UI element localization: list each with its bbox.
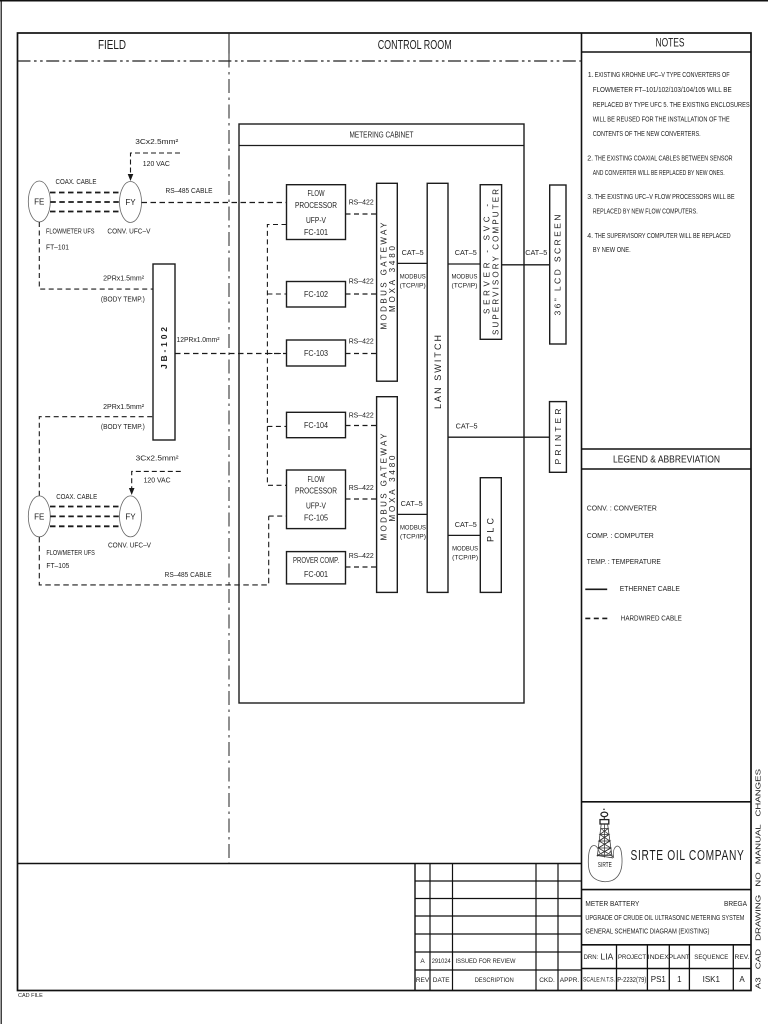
svg-text:BY NEW ONE.: BY NEW ONE. — [593, 247, 631, 254]
svg-text:291024: 291024 — [432, 958, 452, 965]
svg-text:METER BATTERY: METER BATTERY — [585, 899, 639, 908]
svg-text:FIELD: FIELD — [98, 38, 126, 52]
svg-text:2PRx1.5mm²: 2PRx1.5mm² — [103, 404, 145, 411]
svg-text:SEQUENCE: SEQUENCE — [694, 954, 728, 961]
svg-text:MOXA 3480: MOXA 3480 — [388, 245, 397, 312]
svg-text:(BODY TEMP.): (BODY TEMP.) — [101, 424, 145, 431]
wire FC-103 to modbus gateway 1 — [346, 353, 377, 355]
svg-text:4.: 4. — [587, 233, 593, 240]
svg-text:(TCP/IP): (TCP/IP) — [452, 282, 478, 289]
svg-text:SERVER - SVC -: SERVER - SVC - — [482, 204, 491, 314]
svg-text:3Cx2.5mm²: 3Cx2.5mm² — [136, 456, 180, 463]
svg-text:ETHERNET CABLE: ETHERNET CABLE — [620, 584, 680, 593]
zone divider FIELD/CONTROL ROOM (dashed) — [228, 54, 230, 864]
svg-text:INDEX: INDEX — [648, 954, 669, 961]
svg-text:1.: 1. — [588, 72, 594, 79]
svg-text:EXISTING KROHNE UFC–V TYPE CON: EXISTING KROHNE UFC–V TYPE CONVERTERS OF — [595, 72, 730, 79]
bus stub to FC-102 — [267, 293, 286, 295]
svg-text:BREGA: BREGA — [724, 899, 748, 908]
svg-text:FY: FY — [125, 513, 136, 522]
svg-text:RS–422: RS–422 — [349, 279, 374, 286]
svg-text:DRN:: DRN: — [584, 955, 599, 961]
boundary centerline below headers — [18, 60, 582, 62]
svg-text:MODBUS: MODBUS — [400, 273, 427, 280]
zone divider FIELD/CONTROL ROOM (solid top part) — [228, 33, 230, 54]
svg-text:MOXA 3480: MOXA 3480 — [388, 455, 397, 522]
svg-text:RS–422: RS–422 — [349, 553, 374, 560]
svg-text:PROJECT: PROJECT — [618, 954, 646, 961]
modbus gateway U2 MOXA 3480 — [377, 397, 398, 593]
svg-text:WILL BE REUSED FOR THE INSTALL: WILL BE REUSED FOR THE INSTALLATION OF T… — [593, 117, 730, 124]
junction box JB-102 — [153, 264, 175, 440]
ethernet wire LAN switch to PLC — [448, 534, 480, 536]
svg-text:FLOWMETER UFS: FLOWMETER UFS — [46, 550, 95, 557]
RS-485 stub into FC-105 — [269, 515, 287, 517]
svg-text:ISK1: ISK1 — [703, 975, 721, 984]
bus stub crossing into FC-103 — [267, 353, 286, 355]
svg-text:LEGEND & ABBREVIATION: LEGEND & ABBREVIATION — [613, 453, 720, 465]
svg-text:2.: 2. — [587, 155, 593, 162]
page edge top — [0, 0, 768, 2]
svg-text:CAT–5: CAT–5 — [456, 423, 478, 430]
svg-text:CONTENTS OF THE NEW CONVERTERS: CONTENTS OF THE NEW CONVERTERS. — [593, 131, 701, 138]
notes text block — [587, 72, 750, 254]
svg-text:CONV. : CONVERTER: CONV. : CONVERTER — [587, 503, 657, 512]
svg-text:COAX. CABLE: COAX. CABLE — [56, 494, 97, 501]
svg-text:FE: FE — [34, 198, 44, 207]
svg-text:FLOWMETER FT–101/102/103/104/1: FLOWMETER FT–101/102/103/104/105 WILL BE — [593, 87, 732, 94]
120 VAC feed wire to FY-101 — [131, 153, 181, 174]
svg-text:RS–422: RS–422 — [349, 200, 374, 207]
svg-text:PLANT: PLANT — [669, 954, 690, 961]
svg-text:CONV. UFC–V: CONV. UFC–V — [108, 542, 151, 549]
notes header underline — [582, 51, 752, 53]
svg-text:JB-102: JB-102 — [159, 327, 169, 369]
svg-text:THE SUPERVISORY COMPUTER WILL: THE SUPERVISORY COMPUTER WILL BE REPLACE… — [595, 233, 731, 240]
title field column dividers — [617, 945, 734, 991]
sirte logo derrick crown — [603, 809, 605, 811]
LAN switch — [427, 183, 448, 592]
svg-text:THE EXISTING UFC–V FLOW PROCES: THE EXISTING UFC–V FLOW PROCESSORS WILL … — [595, 194, 735, 201]
page edge left — [0, 0, 2, 1024]
svg-text:HARDWIRED CABLE: HARDWIRED CABLE — [621, 613, 682, 622]
svg-text:CKD.: CKD. — [539, 977, 555, 984]
arrowhead into FY-105 — [129, 488, 135, 495]
ethernet wire gateway2 to LAN switch — [397, 513, 427, 515]
sirte logo derrick tower lattice — [597, 824, 612, 859]
svg-text:CONTROL ROOM: CONTROL ROOM — [378, 38, 452, 52]
legend ethernet cable sample line — [585, 588, 607, 590]
flow processor FC-105 — [287, 470, 346, 529]
svg-text:RS–422: RS–422 — [349, 412, 374, 419]
svg-text:FT–105: FT–105 — [46, 563, 69, 570]
converter FY (FT-101) bubble — [120, 182, 142, 223]
svg-text:CONV. UFC–V: CONV. UFC–V — [107, 229, 150, 236]
svg-text:REV.: REV. — [735, 954, 750, 961]
svg-text:PRINTER: PRINTER — [553, 409, 563, 465]
svg-text:PS1: PS1 — [651, 975, 667, 984]
svg-text:1: 1 — [677, 975, 682, 984]
ethernet wire server to LCD screen — [502, 264, 550, 266]
svg-text:P-2232(79): P-2232(79) — [617, 975, 646, 984]
svg-text:3.: 3. — [587, 194, 593, 201]
legend header band bottom line — [582, 468, 752, 470]
svg-text:SCALE:N.T.S.: SCALE:N.T.S. — [583, 976, 615, 983]
body temp wire FE-101 down to JB-102 — [39, 222, 153, 289]
legend hardwired cable sample line — [585, 617, 608, 619]
RS-485 cable wire FE-105 bottom run — [39, 516, 268, 585]
svg-text:(TCP/IP): (TCP/IP) — [452, 554, 478, 561]
svg-text:FE: FE — [34, 513, 44, 522]
svg-text:REPLACED BY TYPE UFC 5. THE EX: REPLACED BY TYPE UFC 5. THE EXISTING ENC… — [593, 102, 750, 109]
svg-text:DATE: DATE — [433, 977, 451, 984]
svg-text:THE EXISTING COAXIAL CABLES BE: THE EXISTING COAXIAL CABLES BETWEEN SENS… — [595, 155, 733, 162]
flow computer FC-104 — [287, 412, 346, 437]
svg-text:PROCESSOR: PROCESSOR — [295, 487, 337, 496]
svg-text:CAT–5: CAT–5 — [525, 250, 547, 257]
svg-text:FLOWMETER UFS: FLOWMETER UFS — [46, 229, 95, 236]
svg-text:FC-102: FC-102 — [304, 290, 328, 299]
svg-text:MODBUS: MODBUS — [452, 273, 479, 280]
svg-text:120 VAC: 120 VAC — [143, 161, 170, 168]
wire FC-001 to modbus gateway 2 — [346, 566, 377, 568]
svg-text:ISSUED FOR REVIEW: ISSUED FOR REVIEW — [456, 958, 517, 965]
LCD screen 36in — [550, 185, 566, 344]
sirte logo blob — [588, 846, 622, 882]
svg-text:CAT–5: CAT–5 — [455, 250, 477, 257]
svg-text:RS–485 CABLE: RS–485 CABLE — [166, 188, 213, 195]
svg-text:CAT–5: CAT–5 — [455, 522, 477, 529]
wire FC-101 to modbus gateway 1 — [346, 213, 377, 215]
svg-text:REPLACED BY NEW FLOW COMPUTERS: REPLACED BY NEW FLOW COMPUTERS. — [593, 208, 698, 215]
coax cable wires FE-FY (FT-105) — [50, 507, 120, 527]
svg-text:COMP. : COMPUTER: COMP. : COMPUTER — [587, 531, 654, 540]
svg-text:REV: REV — [416, 977, 430, 984]
svg-text:DESCRIPTION: DESCRIPTION — [475, 977, 514, 984]
svg-text:CAD FILE: CAD FILE — [18, 993, 43, 999]
svg-text:(BODY TEMP.): (BODY TEMP.) — [101, 297, 145, 304]
svg-text:COAX. CABLE: COAX. CABLE — [56, 179, 97, 186]
prover computer FC-001 — [287, 552, 346, 584]
svg-text:APPR.: APPR. — [560, 977, 580, 984]
svg-text:FC-101: FC-101 — [304, 228, 328, 237]
flow computer FC-103 — [287, 340, 346, 366]
svg-text:SIRTE: SIRTE — [598, 860, 612, 869]
revision table left border — [414, 864, 416, 991]
svg-text:RS–485 CABLE: RS–485 CABLE — [165, 572, 212, 579]
notes column left border — [581, 33, 583, 991]
body temp wire FE-105 up to JB-102 — [39, 417, 153, 496]
svg-text:LAN SWITCH: LAN SWITCH — [433, 335, 443, 409]
svg-text:A3 CAD DRAWING NO MANUAL: A3 CAD DRAWING NO MANUAL CHANGES — [754, 769, 763, 989]
svg-text:MODBUS: MODBUS — [452, 545, 479, 552]
RS-485 cable wire FY-101 to FC-101 — [142, 202, 287, 204]
svg-text:CAT–5: CAT–5 — [402, 250, 424, 257]
svg-text:UFP-V: UFP-V — [306, 216, 327, 225]
revision table column lines — [430, 864, 558, 991]
svg-text:METERING CABINET: METERING CABINET — [350, 131, 414, 140]
svg-text:PROCESSOR: PROCESSOR — [295, 201, 337, 210]
title block top line — [582, 801, 752, 803]
metering cabinet enclosure — [239, 124, 524, 703]
svg-text:A: A — [420, 958, 425, 965]
svg-text:FY: FY — [125, 198, 136, 207]
svg-text:36" LCD SCREEN: 36" LCD SCREEN — [553, 215, 563, 316]
bus stub to FC-104 — [267, 425, 286, 427]
svg-text:PLC: PLC — [486, 518, 496, 543]
svg-text:(TCP/IP): (TCP/IP) — [400, 282, 426, 289]
svg-text:UFP-V: UFP-V — [306, 502, 327, 511]
svg-text:FC-105: FC-105 — [304, 514, 329, 523]
svg-text:SUPERVISORY COMPUTER: SUPERVISORY COMPUTER — [491, 189, 500, 335]
12PR trunk wire JB-102 to bus — [175, 353, 287, 355]
ethernet wire gateway1 to LAN switch — [397, 262, 427, 264]
wire FC-105 to modbus gateway 2 — [346, 498, 377, 500]
svg-text:RS–422: RS–422 — [349, 485, 374, 492]
title fields top line — [582, 944, 752, 946]
svg-text:LIA: LIA — [601, 951, 614, 961]
arrowhead into FY-101 — [128, 174, 134, 181]
svg-text:AND CONVERTER WILL BE REPLACED: AND CONVERTER WILL BE REPLACED BY NEW ON… — [593, 170, 725, 177]
coax cable wires FE-FY (FT-101) — [50, 193, 120, 212]
svg-text:FLOW: FLOW — [308, 189, 325, 198]
svg-text:SIRTE OIL COMPANY: SIRTE OIL COMPANY — [631, 847, 745, 864]
svg-text:GENERAL SCHEMATIC DIAGRAM (EXI: GENERAL SCHEMATIC DIAGRAM (EXISTING) — [585, 927, 709, 936]
body-temp distribution bus — [267, 225, 286, 486]
svg-text:(TCP/IP): (TCP/IP) — [400, 533, 426, 540]
modbus gateway U1 MOXA 3480 — [377, 183, 398, 381]
wire FC-102 to modbus gateway 1 — [346, 293, 377, 295]
printer — [550, 402, 567, 473]
svg-text:A: A — [739, 975, 745, 984]
ethernet wire LAN switch to server — [448, 263, 480, 265]
svg-text:3Cx2.5mm²: 3Cx2.5mm² — [135, 139, 179, 146]
120 VAC feed wire to FY-105 — [132, 471, 181, 488]
svg-text:FC-104: FC-104 — [304, 421, 329, 430]
supervisory computer server SVC — [480, 185, 501, 340]
svg-text:RS–422: RS–422 — [349, 338, 374, 345]
svg-text:TEMP. : TEMPERATURE: TEMP. : TEMPERATURE — [587, 557, 661, 566]
flow processor FC-101 — [287, 185, 346, 240]
converter FY (FT-105) bubble — [120, 496, 142, 537]
wire FC-104 to modbus gateway 2 — [346, 425, 377, 427]
svg-text:12PRx1.0mm²: 12PRx1.0mm² — [177, 337, 221, 344]
svg-text:FC-001: FC-001 — [304, 570, 328, 579]
flow element FE (FT-101) bubble — [28, 181, 50, 222]
legend header band top line — [582, 448, 752, 450]
svg-text:PROVER COMP.: PROVER COMP. — [293, 556, 339, 565]
PLC — [480, 478, 501, 593]
sirte logo derrick platform bar — [600, 820, 609, 824]
ethernet wire LAN switch to printer — [448, 436, 550, 438]
title fields mid line — [582, 968, 752, 970]
svg-text:UPGRADE OF CRUDE OIL ULTRASONI: UPGRADE OF CRUDE OIL ULTRASONIC METERING… — [585, 913, 744, 922]
bottom band separator line — [18, 863, 582, 865]
svg-text:2PRx1.5mm²: 2PRx1.5mm² — [103, 276, 145, 283]
svg-text:CAT–5: CAT–5 — [401, 501, 423, 508]
title box separator — [582, 889, 752, 891]
svg-text:FLOW: FLOW — [308, 475, 325, 484]
svg-text:FC-103: FC-103 — [304, 349, 328, 358]
svg-text:120 VAC: 120 VAC — [144, 478, 171, 485]
svg-text:MODBUS: MODBUS — [400, 524, 427, 531]
flow element FE (FT-105) bubble — [28, 496, 50, 537]
flow computer FC-102 — [287, 282, 346, 308]
revision table row lines — [415, 881, 582, 970]
svg-text:NOTES: NOTES — [656, 36, 685, 50]
svg-text:FT–101: FT–101 — [46, 244, 69, 251]
metering cabinet header line — [239, 145, 524, 147]
